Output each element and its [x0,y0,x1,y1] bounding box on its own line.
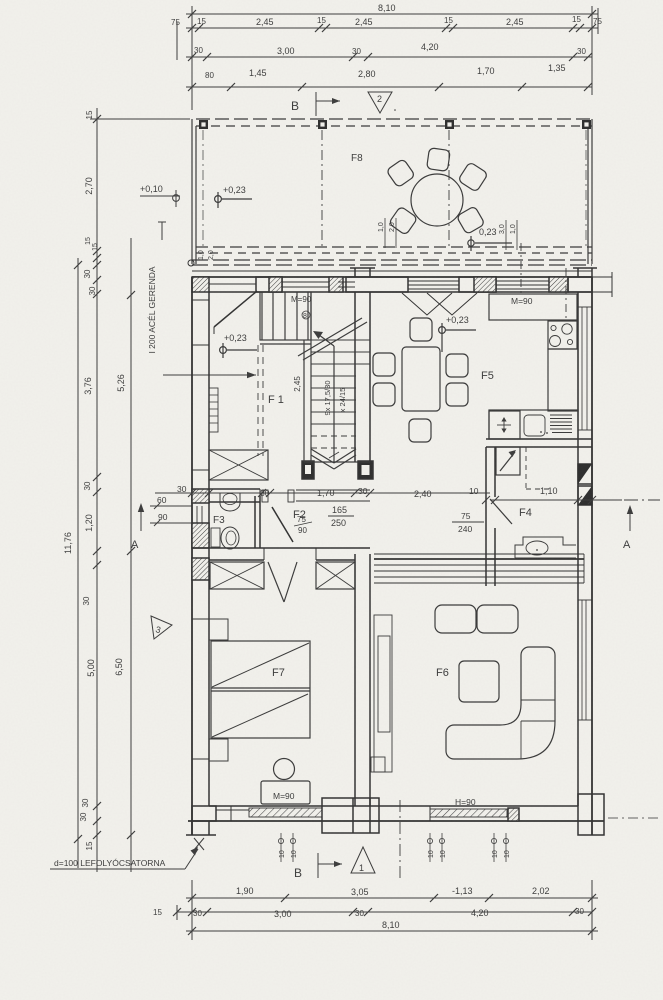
terrace posts [199,120,208,129]
section arrow A right [629,507,631,531]
bottom dim line row3 total [186,930,598,932]
dim line 11,76 outer [77,258,79,868]
armchair right [477,605,518,633]
radiator F1 [209,388,218,432]
counter right strip [548,349,578,411]
main flight steps [311,340,370,448]
beam leader arrow [163,374,256,376]
coffee table [459,661,499,702]
stove [548,321,577,349]
right wall window lines kitchen [581,307,583,430]
wardrobe with X [209,450,268,480]
section arrow A left [140,505,142,531]
small rebar marks terrace [198,218,517,260]
kitchen sink [524,415,545,436]
flight bottom edge chevrons [311,449,334,463]
top pier A [256,277,282,292]
sofa L-shape [446,647,555,759]
rebar pole marks bottom [278,833,511,862]
garden chair lower-right [456,206,485,235]
bottom boundary verticals [191,880,193,940]
kitchen counter top with M=90 [489,294,577,320]
break line across flight [298,318,362,356]
flight bottom double edge [304,461,370,463]
garden table round [411,174,463,226]
horizontal connector terrace top [90,118,190,120]
bottom-right corner pier [578,794,604,835]
kitchen window W4 [496,280,549,282]
tick marks row4 [188,83,196,91]
corner drain circle [188,260,194,266]
desk with label M=90 [261,781,310,804]
WC hand basin [220,493,240,511]
left wall [191,277,193,835]
detail triangle 1 [351,847,375,873]
entry door swing [214,291,257,327]
post axis dashed lines [321,130,323,250]
mid dim ticks [188,489,596,504]
bed diagonal upper [212,643,309,687]
top pier B [329,277,343,292]
main flight left railing [303,340,305,462]
bottom-left corner pier [191,821,193,835]
dim boundary verticals [191,6,193,110]
right wall [591,277,593,835]
left wall ticks [192,300,209,759]
nightstand upper [209,619,228,640]
toilet [211,528,220,547]
shower dashed enclosure [525,447,527,489]
TV built-in on wall [374,615,392,772]
F2 door jambs [262,490,268,502]
F7 window sill [216,809,322,811]
section line A-A [155,492,490,494]
top pier C [459,277,496,292]
flue box upper [578,464,592,484]
dishwasher with cross [489,411,520,439]
tick marks row2 [188,24,196,32]
garden chair top [427,148,451,172]
garden chair upper-left [386,158,415,187]
chair bottom [409,419,431,442]
circled 8 step note [302,311,310,319]
dimension line total 8,10 top [186,13,598,15]
sofa seam lines [521,699,555,701]
walk line with arrow [333,346,335,462]
left wall pier below F3 [192,558,209,580]
stair bottom pier left [302,461,314,479]
chair left upper [373,353,395,376]
nightstand lower [209,739,228,761]
dining window W3 [408,280,459,282]
dim line chain x97 [96,108,98,872]
terrace right edge [587,126,589,264]
chair top [410,318,432,341]
bottom central pier cross [322,798,379,833]
kitchen/F4 divider wall [486,438,592,440]
window opening V marks [402,293,452,315]
detail triangle 2 [368,92,392,113]
ticks L3 [127,291,135,299]
row2 ticks [173,908,181,916]
central wall top cross [346,277,408,292]
chair right lower [446,383,468,406]
flue axis dashed [565,268,567,322]
dim line x131 5,26/6,50 [130,238,132,872]
garden chair upper-right [458,162,488,192]
washbasin counter [515,537,576,558]
top pier D [549,277,568,292]
landing edge double [260,343,311,345]
bottom wall outer [188,820,604,822]
flue box lower [578,486,592,505]
tick marks row3 [188,53,196,61]
chair left lower [373,383,395,406]
chair right upper [446,354,468,377]
top wall inner line [209,291,592,293]
counter lower band [489,410,578,439]
wardrobe left with X [210,562,264,589]
dimension line row2 15/2,45 [186,27,598,29]
section axis B bottom dashed [399,800,401,878]
F4 left wall [485,447,487,586]
dimension line row3 30/3,00/30/4,20/30 [186,56,592,58]
central wall upper [354,292,356,462]
dimension line row4 80/1,45/2,80/1,70/1,35 [186,86,592,88]
bed diagonal lower [212,694,308,737]
ticks L2 [93,115,101,123]
entry door threshold line [209,283,256,285]
F7 door swing V [268,562,284,602]
F3 right wall [254,496,256,548]
F4/F6 wall band [374,553,584,555]
row1 ticks [173,894,596,935]
central wall lower [354,554,356,806]
F3 window in left wall [196,506,198,523]
wardrobe right with X [316,562,355,589]
bottom dim line row2 [177,911,592,913]
top-left corner pier [192,277,209,292]
dish rack lines [550,415,572,433]
wall seg F1 south to central [296,489,370,491]
top wall outer line [192,276,592,278]
double bed [211,641,310,738]
left wall pier hatched F3 lower [192,523,209,548]
terrace bottom eaves dashed [196,246,592,248]
upper flight landing box [260,292,311,340]
dining table [402,347,440,411]
upper flight steps [261,292,263,340]
F2 door swing [272,507,293,542]
terrace top edge dashed double [196,118,592,120]
tick marks row1 [188,10,596,91]
overhead floor edge dashed [257,345,259,456]
terrace left edge [191,119,193,264]
F3/F7 wall [192,547,370,549]
shower box [496,447,520,475]
garden chair lower-left [388,206,417,235]
detail triangle 3 [151,616,172,639]
F6 window sill [430,809,507,817]
right wall window lines living [581,600,583,720]
ticks L1 [74,261,82,269]
stair bottom pier right [358,461,373,479]
small dark block right window end [508,808,519,821]
window above stair [282,281,329,283]
desk chair [274,759,295,780]
armchair left [435,605,476,633]
F4 door swing [490,499,512,524]
left wall pier hatched F3 upper [192,489,209,503]
bottom dim line row1 [186,897,598,899]
row3 ticks [188,927,196,935]
bottom wall inner [209,805,578,807]
top-right corner cross [568,277,592,292]
F3 top wall [209,488,260,490]
right wall ticks [578,307,592,720]
window seg [338,281,355,283]
